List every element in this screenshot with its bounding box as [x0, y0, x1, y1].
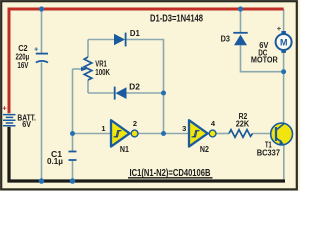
svg-text:100K: 100K — [95, 68, 110, 77]
svg-text:D3: D3 — [221, 35, 231, 44]
svg-text:M: M — [280, 37, 288, 47]
svg-text:1: 1 — [101, 124, 105, 133]
svg-text:N2: N2 — [200, 145, 209, 154]
svg-text:IC1(N1-N2)=CD40106B: IC1(N1-N2)=CD40106B — [130, 168, 211, 179]
svg-text:16V: 16V — [17, 61, 29, 70]
svg-text:MOTOR: MOTOR — [251, 56, 278, 65]
svg-text:2: 2 — [133, 119, 137, 128]
svg-text:D1: D1 — [130, 29, 140, 38]
svg-text:0.1µ: 0.1µ — [47, 157, 63, 166]
svg-text:3: 3 — [182, 124, 186, 133]
svg-text:+: + — [34, 44, 39, 53]
svg-text:C2: C2 — [18, 44, 28, 53]
svg-text:22K: 22K — [236, 119, 250, 128]
svg-text:D1-D3=1N4148: D1-D3=1N4148 — [150, 12, 203, 24]
svg-text:N1: N1 — [120, 145, 129, 154]
svg-text:+: + — [277, 24, 282, 33]
svg-text:BC337: BC337 — [257, 148, 281, 157]
svg-text:6V: 6V — [22, 120, 31, 129]
svg-text:+: + — [2, 103, 7, 112]
svg-text:D2: D2 — [129, 82, 140, 91]
